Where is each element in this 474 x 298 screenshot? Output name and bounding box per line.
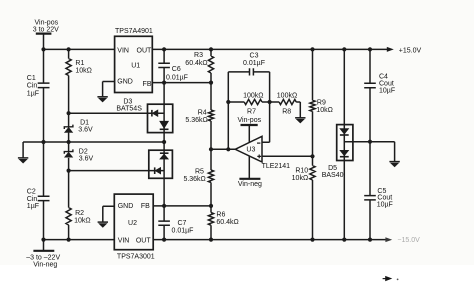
svg-text:C4: C4 [379, 73, 388, 80]
svg-text:Cout: Cout [379, 81, 394, 88]
svg-text:Cin: Cin [27, 196, 38, 203]
svg-text:Vin-neg: Vin-neg [238, 181, 262, 188]
svg-text:10kΩ: 10kΩ [75, 68, 92, 75]
svg-text:0.01µF: 0.01µF [172, 228, 194, 235]
svg-text:60.4kΩ: 60.4kΩ [185, 60, 207, 67]
svg-text:GND: GND [117, 79, 133, 86]
svg-text:R4: R4 [198, 109, 207, 116]
svg-text:0.01µF: 0.01µF [243, 60, 265, 67]
svg-text:FB: FB [141, 203, 150, 210]
svg-text:VIN: VIN [118, 237, 130, 244]
svg-text:100kΩ: 100kΩ [277, 92, 297, 99]
svg-text:C3: C3 [250, 52, 259, 59]
svg-text:–3 to –22V: –3 to –22V [26, 254, 60, 261]
svg-text:1µF: 1µF [27, 203, 39, 210]
svg-text:R5: R5 [195, 169, 204, 176]
svg-text:3.6V: 3.6V [79, 156, 94, 163]
svg-text:TLE2141: TLE2141 [262, 163, 291, 170]
svg-text:0.01µF: 0.01µF [166, 75, 188, 82]
svg-text:C1: C1 [27, 75, 36, 82]
svg-text:R10: R10 [295, 167, 308, 174]
svg-text:U3: U3 [246, 146, 255, 153]
svg-text:OUT: OUT [137, 47, 153, 54]
svg-text:10kΩ: 10kΩ [292, 175, 309, 182]
svg-text:Vin-neg: Vin-neg [33, 261, 57, 268]
svg-text:5.36kΩ: 5.36kΩ [185, 117, 207, 124]
svg-text:C2: C2 [27, 189, 36, 196]
svg-text:5.36kΩ: 5.36kΩ [183, 176, 205, 183]
svg-text:10kΩ: 10kΩ [74, 218, 91, 225]
svg-text:R1: R1 [75, 60, 84, 67]
svg-text:+15.0V: +15.0V [399, 47, 422, 54]
svg-text:TPS7A3001: TPS7A3001 [117, 253, 155, 260]
svg-text:Cin: Cin [27, 83, 38, 90]
svg-text:R8: R8 [282, 108, 291, 115]
svg-text:R6: R6 [216, 211, 225, 218]
svg-text:R9: R9 [317, 100, 326, 107]
svg-text:OUT: OUT [136, 237, 152, 244]
svg-text:−15.0V: −15.0V [397, 237, 420, 244]
svg-text:R3: R3 [194, 52, 203, 59]
svg-text:R2: R2 [75, 210, 84, 217]
svg-text:C6: C6 [172, 66, 181, 73]
svg-text:VIN: VIN [117, 47, 129, 54]
svg-text:10kΩ: 10kΩ [316, 107, 333, 114]
svg-text:1µF: 1µF [27, 90, 39, 97]
svg-text:60.4kΩ: 60.4kΩ [216, 219, 238, 226]
svg-text:3 to 22V: 3 to 22V [33, 27, 59, 34]
svg-text:C7: C7 [178, 220, 187, 227]
svg-text:100kΩ: 100kΩ [243, 92, 263, 99]
svg-text:U1: U1 [131, 62, 140, 69]
svg-text:D5: D5 [328, 165, 337, 172]
svg-text:Vin-pos: Vin-pos [34, 19, 58, 26]
svg-text:R7: R7 [247, 108, 256, 115]
svg-text:3.6V: 3.6V [78, 126, 93, 133]
svg-text:BAT54S: BAT54S [116, 105, 142, 112]
svg-text:U2: U2 [128, 220, 137, 227]
svg-text:10µF: 10µF [379, 88, 395, 95]
svg-text:FB: FB [143, 81, 152, 88]
svg-text:10µF: 10µF [377, 201, 393, 208]
svg-text:TPS7A4901: TPS7A4901 [115, 28, 153, 35]
svg-text:Vin-pos: Vin-pos [237, 117, 261, 124]
svg-text:GND: GND [118, 203, 134, 210]
svg-text:BAS40: BAS40 [322, 172, 344, 179]
